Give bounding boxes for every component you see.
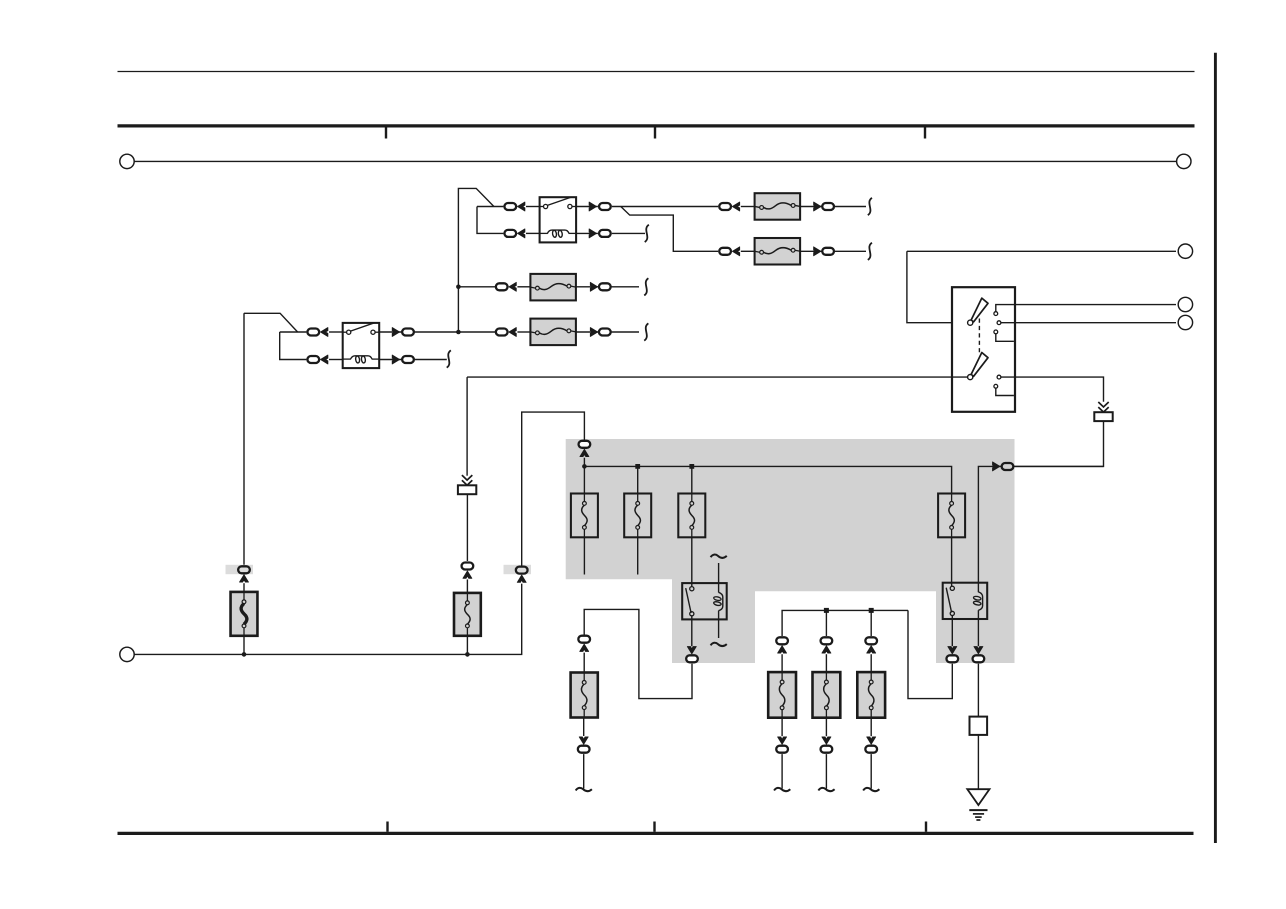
wire bus to fuse f1: [583, 466, 585, 493]
top tick 2: [654, 128, 656, 139]
wire fuse F6 out: [800, 250, 866, 252]
connector oval relay M in 1: [504, 203, 516, 210]
wire relay L out coil: [379, 359, 447, 361]
wire R2 to fuse bus: [908, 610, 952, 698]
connector arrow D: [580, 449, 589, 456]
connector arrow fuse F2 in: [822, 646, 831, 653]
fuse f4: [938, 494, 965, 538]
wire relay M out top: [576, 206, 598, 208]
wire to fuse F3: [870, 654, 872, 672]
relay M: [540, 197, 577, 242]
connector oval E: [578, 636, 590, 643]
wire R1 to fusible link E: [584, 609, 692, 698]
wire oval to relay L pin2: [329, 359, 343, 361]
relay R2: [943, 583, 988, 619]
connector oval fuse F8 out: [599, 329, 611, 336]
wire bus to F1: [825, 610, 827, 636]
fuse F6: [755, 238, 801, 265]
ignition contact 5: [994, 384, 998, 388]
relay R1: [682, 583, 727, 619]
connector arrow relay M in 2: [518, 229, 525, 238]
connector oval C: [516, 567, 528, 574]
wire B to fusible link: [466, 579, 468, 593]
connector highlight band A: [226, 565, 254, 574]
junction connector J1: [458, 475, 476, 494]
connector oval fuse F5 in: [719, 203, 731, 210]
junction square bus 1: [824, 608, 829, 613]
top tick 1: [385, 128, 387, 139]
wire fuse F8 out: [576, 331, 639, 333]
connector oval ignition-R2: [1002, 463, 1014, 470]
connector oval R1 out: [686, 655, 698, 662]
wire R2 coil out: [977, 610, 979, 646]
wire A riser: [243, 313, 245, 564]
wire oval to J2: [1015, 465, 1104, 467]
junction square bus 2: [869, 608, 874, 613]
wire ignition ACC feed: [467, 376, 967, 378]
connector arrow relay M out 1: [589, 202, 596, 211]
ground G1: [967, 789, 989, 820]
connector arrow fuse F8 out: [590, 328, 597, 337]
wire fuse F2 out: [825, 718, 827, 737]
connector arrow fuse F1 out: [778, 737, 787, 744]
connector oval fuse F3 low: [865, 746, 877, 753]
wire f4 to relay R2: [951, 537, 953, 586]
connector arrow B: [463, 571, 472, 578]
junction dot lower 2: [465, 652, 470, 657]
fuse F2: [813, 672, 841, 718]
wire relay L out top: [379, 331, 495, 333]
node E: [1178, 315, 1192, 329]
wire relay L left tie: [280, 332, 307, 360]
wire E to fuse: [583, 653, 585, 673]
junction dot fuse row: [456, 285, 461, 290]
right border rule: [1214, 53, 1217, 843]
continuation symbol F3: [863, 788, 879, 791]
junction connector J2: [1094, 402, 1112, 421]
wire R1 coil lower: [718, 611, 720, 638]
wire fuse E out: [583, 718, 585, 737]
wire f2 stub: [637, 537, 639, 574]
relay L: [343, 323, 380, 368]
junction dot bus 1: [582, 464, 587, 469]
wire f1 stub: [583, 537, 585, 574]
continuation symbol R1 top: [711, 555, 727, 558]
junction square bus B: [689, 464, 694, 469]
wire to node C: [907, 250, 1176, 252]
wire relay M coil stub: [576, 232, 598, 234]
break symbol fuse F7: [644, 278, 648, 295]
fuse F7: [530, 274, 576, 301]
node D: [1178, 297, 1192, 311]
connector oval fuse F2 low: [821, 746, 833, 753]
ignition contact 3: [994, 330, 998, 334]
connector oval relay L out 1: [402, 329, 414, 336]
wire bus to F2: [870, 610, 872, 636]
wire R2 coil feed: [978, 466, 1001, 592]
wire pin2 to node E: [1001, 322, 1176, 324]
wire pin3 hook: [996, 334, 1014, 341]
bottom tick 3: [925, 822, 927, 832]
wire feed to relay M: [458, 188, 494, 332]
bottom tick 1: [386, 822, 388, 832]
wire oval to relay M pin1: [526, 206, 540, 208]
wire G down: [583, 754, 585, 788]
wire R1 out: [691, 615, 693, 646]
connector arrow relay L in 1: [321, 328, 328, 337]
wire bus to fuse f2: [637, 466, 639, 493]
wire R1 coil upper: [718, 563, 720, 593]
wire relay M left tie: [477, 207, 503, 234]
wire to fuse F7: [517, 286, 530, 288]
node F: [120, 647, 134, 661]
connector oval fuse F6 out: [822, 248, 834, 255]
connector oval fuse F2 in: [821, 637, 833, 644]
wire FL2 to bus: [466, 636, 468, 655]
top tick 3: [924, 128, 926, 139]
bottom tick 2: [653, 822, 655, 832]
connector arrow fuse F8 in: [509, 328, 516, 337]
connector arrow relay L out 1: [392, 328, 399, 337]
wire fuse F3 out: [870, 718, 872, 737]
fusible link FL2: [454, 593, 481, 636]
wire main lower bus: [127, 584, 522, 655]
break symbol fuse F5: [868, 198, 872, 215]
wire to fuse F8: [517, 331, 530, 333]
connector oval relay M in 2: [504, 230, 516, 237]
continuation symbol R1 bottom: [711, 643, 727, 646]
wire f3 to relay R1: [691, 537, 693, 586]
wire A to fusible link: [243, 583, 245, 592]
connector arrow relay M out 2: [589, 229, 596, 238]
connector arrow fuse F1 in: [778, 646, 787, 653]
ignition contact 4: [997, 375, 1001, 379]
fuse f3: [678, 494, 705, 538]
wire oval to relay M pin2: [526, 232, 540, 234]
wire fuse F1 down: [781, 754, 783, 788]
continuation symbol G: [576, 788, 592, 791]
wire R2 coil to resistor: [977, 664, 979, 717]
resistor block: [970, 717, 988, 735]
connector arrow relay M in 1: [518, 202, 525, 211]
wire bus to fuse f3: [691, 466, 693, 493]
wire R2 out: [951, 616, 953, 647]
wire oval to relay L pin1: [329, 331, 343, 333]
wire relay M coil out: [612, 232, 645, 234]
connector arrow fuse F3 out: [867, 737, 876, 744]
ignition contact 2: [997, 321, 1001, 325]
connector oval fuse F7 in: [496, 283, 508, 290]
connector oval G: [578, 746, 590, 753]
wire fuse F3 down: [870, 754, 872, 788]
wire to fuse F1: [781, 654, 783, 672]
connector oval relay M out 2: [599, 230, 611, 237]
wire ignition AM1 feed: [907, 251, 968, 322]
ignition lever 1: [968, 298, 988, 325]
connector arrow A: [240, 575, 249, 582]
wire pin1 to node D: [996, 305, 1176, 312]
fuse f2: [624, 494, 651, 538]
connector oval fuse F1 in: [776, 637, 788, 644]
connector arrow E: [580, 644, 589, 651]
connector arrow R2 coil out: [974, 647, 983, 654]
connector arrow E out: [579, 737, 588, 744]
break symbol fuse F6: [868, 243, 872, 260]
wire J2 down-left: [1002, 421, 1104, 466]
wire D to bus: [583, 458, 585, 467]
connector arrow fuse F6 in: [732, 247, 739, 256]
connector arrow C: [517, 575, 526, 582]
connector oval B: [462, 563, 474, 570]
ignition lever 2: [968, 353, 988, 380]
junction dot relay L row: [456, 330, 461, 335]
connector oval relay M out 1: [599, 203, 611, 210]
connector oval fuse F3 in: [865, 637, 877, 644]
connector oval R2 coil out: [973, 655, 985, 662]
ignition switch SW1: [952, 287, 1015, 412]
bottom thick rule: [118, 832, 1194, 835]
connector oval relay L out 2: [402, 356, 414, 363]
fuse f1: [571, 494, 598, 538]
junction square bus A: [635, 464, 640, 469]
wire fuse bank bus: [782, 610, 908, 636]
wire pin5 hook: [996, 388, 1014, 395]
connector oval R2 out: [946, 655, 958, 662]
connector highlight band C: [504, 565, 532, 574]
connector oval fuse F6 in: [719, 248, 731, 255]
wire resistor to ground: [977, 735, 979, 789]
wire fuse F2 down: [825, 754, 827, 788]
fusible link FL1: [231, 592, 258, 636]
connector oval relay L in 1: [307, 329, 319, 336]
fuse F5: [755, 193, 801, 220]
wire ACC drop: [466, 377, 468, 476]
wire to fuse F5: [741, 206, 755, 208]
connector arrow fuse F7 out: [590, 282, 597, 291]
connector oval D: [579, 441, 591, 448]
break symbol relay L coil: [447, 350, 451, 367]
wire to fuse F6: [741, 250, 755, 252]
break symbol fuse F8: [644, 323, 648, 340]
connector arrow fuse F2 out: [822, 737, 831, 744]
wire battery bus: [127, 160, 1184, 162]
fuse E: [571, 673, 598, 718]
node C: [1178, 244, 1192, 258]
wire relay M out row: [612, 206, 718, 208]
top border line: [118, 71, 1195, 73]
connector arrow R2 out: [948, 647, 957, 654]
wire pin4 to junction J2: [1001, 377, 1104, 402]
node B: [1177, 154, 1191, 168]
top thick rule: [118, 124, 1195, 127]
shaded junction-block region: [566, 439, 1015, 663]
fuse F3: [857, 672, 885, 718]
connector arrow relay L out 2: [392, 355, 399, 364]
wire shaded bus: [584, 466, 951, 493]
connector oval fuse F1 low: [776, 746, 788, 753]
wire fuse row 3 left: [458, 286, 495, 288]
wire feed to relay L: [244, 313, 298, 332]
wire FL1 to bus: [243, 636, 245, 655]
wire path C-D: [522, 412, 585, 565]
connector arrow relay L in 2: [321, 355, 328, 364]
continuation symbol F2: [818, 788, 834, 791]
wire fuse F7 out: [576, 286, 639, 288]
junction dot lower 1: [242, 652, 247, 657]
wire fuse F5 out: [800, 206, 866, 208]
wire jog to fuse row 2: [621, 207, 718, 252]
ignition contact 1: [994, 312, 998, 316]
ignition link dashed: [978, 319, 980, 353]
wire J1 to oval B: [466, 494, 468, 561]
connector oval A: [238, 566, 250, 573]
connector arrow fuse F6 out: [814, 247, 821, 256]
connector arrow fuse F5 out: [814, 202, 821, 211]
wire fuse F1 out: [781, 718, 783, 737]
connector oval fuse F8 in: [496, 329, 508, 336]
break symbol coil row: [645, 225, 649, 242]
node A: [120, 154, 134, 168]
fuse F1: [768, 672, 796, 718]
connector oval fuse F7 out: [599, 283, 611, 290]
wire to fuse F2: [825, 654, 827, 672]
connector oval fuse F5 out: [822, 203, 834, 210]
connector arrow fuse F3 in: [867, 646, 876, 653]
connector arrow fuse F5 in: [732, 202, 739, 211]
connector arrow R1 out: [687, 647, 696, 654]
connector arrow fuse F7 in: [509, 282, 516, 291]
connector arrow ignition-R2: [993, 462, 1000, 471]
fuse F8: [530, 319, 576, 346]
connector oval relay L in 2: [307, 356, 319, 363]
continuation symbol F1: [774, 788, 790, 791]
